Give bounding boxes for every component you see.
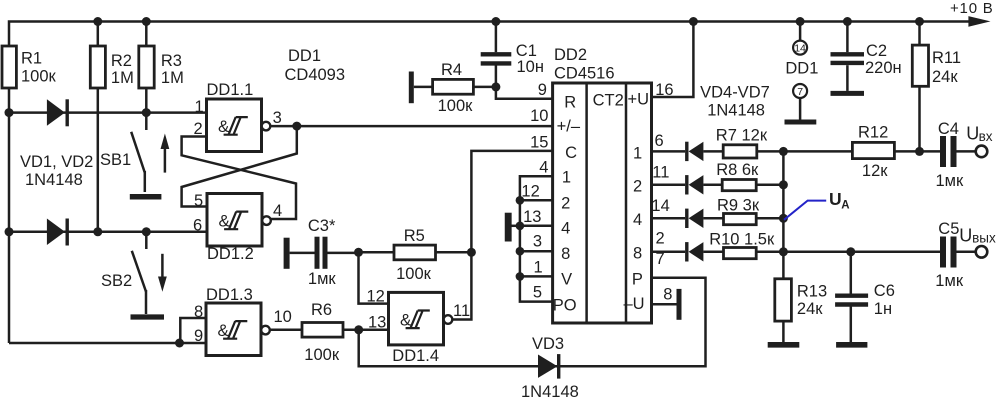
svg-text:1M: 1M	[161, 69, 184, 87]
node rail C1	[491, 17, 500, 26]
svg-text:12: 12	[521, 182, 539, 200]
node SB1 top	[142, 108, 151, 117]
diode VD2	[47, 219, 65, 246]
diode VD5	[651, 175, 722, 194]
op-amp DD1.2	[207, 194, 271, 247]
wire DD2 gnd bus	[510, 176, 553, 301]
wire row 1	[9, 111, 207, 114]
wire pin8 gnd	[651, 303, 677, 306]
svg-text:12к: 12к	[862, 162, 888, 180]
IC DD2 body	[553, 83, 652, 323]
svg-text:13: 13	[523, 208, 541, 226]
svg-text:C: C	[565, 144, 577, 162]
svg-text:VD3: VD3	[532, 335, 564, 353]
svg-text:5: 5	[533, 284, 542, 302]
node bus row11	[779, 180, 788, 189]
wire left bottom to pin9	[9, 342, 206, 345]
svg-text:10: 10	[274, 308, 292, 326]
node DD1.1 out	[292, 122, 301, 131]
Uvx label	[966, 123, 992, 144]
svg-text:13: 13	[368, 314, 386, 332]
resistor R12	[852, 124, 940, 180]
svg-text:R1: R1	[21, 50, 42, 68]
ground DD2 left	[505, 213, 512, 242]
svg-text:вх: вх	[979, 129, 993, 144]
node left row1	[5, 108, 14, 117]
svg-text:DD1: DD1	[288, 47, 321, 65]
svg-text:вых: вых	[972, 231, 996, 246]
ground DD1	[785, 120, 817, 125]
node rail R3	[142, 17, 151, 26]
wire pin16 riser	[651, 22, 693, 98]
capacitor C6	[835, 252, 895, 342]
svg-text:C6: C6	[874, 282, 895, 300]
svg-text:10н: 10н	[517, 58, 544, 76]
svg-text:100к: 100к	[438, 97, 474, 115]
svg-text:8: 8	[561, 245, 570, 263]
node R5 right	[467, 248, 476, 257]
+10V arrow	[968, 16, 990, 27]
node bus row14	[779, 214, 788, 223]
svg-text:DD2: DD2	[554, 46, 587, 64]
wire cross-coupling pin2 to out4	[182, 137, 296, 220]
resistor R2	[97, 22, 100, 232]
svg-text:1мк: 1мк	[935, 272, 964, 290]
svg-text:8: 8	[663, 286, 672, 304]
node C3-R5	[354, 248, 363, 257]
svg-text:R6: R6	[311, 301, 332, 319]
svg-text:CT2: CT2	[593, 92, 624, 110]
svg-text:1M: 1M	[111, 69, 134, 87]
diode VD1	[47, 99, 65, 126]
svg-text:R9 3к: R9 3к	[717, 196, 760, 214]
node SB2 top	[142, 227, 151, 236]
resistor R5	[359, 227, 472, 283]
svg-text:R4: R4	[441, 61, 462, 79]
svg-text:100к: 100к	[304, 346, 340, 364]
svg-text:15: 15	[530, 133, 548, 151]
svg-text:1мк: 1мк	[308, 270, 337, 288]
capacitor C2	[831, 22, 902, 91]
svg-text:U: U	[966, 123, 979, 143]
svg-text:R3: R3	[161, 52, 182, 70]
svg-text:1N4148: 1N4148	[25, 171, 83, 189]
resistor R1	[2, 46, 16, 88]
wire bottom rail	[359, 278, 706, 366]
svg-text:–U: –U	[624, 295, 645, 313]
svg-text:4: 4	[633, 211, 642, 229]
wire cross-coupling out3 to pin5	[182, 126, 297, 206]
wire top power rail	[9, 22, 970, 344]
svg-text:220н: 220н	[865, 59, 902, 77]
svg-text:11: 11	[453, 302, 470, 320]
wire row 2	[9, 231, 207, 234]
resistor R7	[716, 127, 853, 158]
svg-text:C5: C5	[938, 220, 959, 238]
svg-text:24к: 24к	[797, 300, 823, 318]
svg-text:DD1.1: DD1.1	[207, 81, 254, 99]
svg-text:R: R	[564, 94, 576, 112]
ground R4	[409, 72, 414, 104]
ground C6	[836, 342, 867, 348]
node bus row6	[779, 147, 788, 156]
svg-text:A: A	[841, 200, 849, 212]
node rail C2	[843, 17, 852, 26]
svg-text:12: 12	[367, 288, 385, 306]
resistor R11	[912, 22, 961, 152]
svg-text:DD1.4: DD1.4	[392, 347, 439, 365]
svg-text:1: 1	[633, 144, 642, 162]
svg-text:2: 2	[656, 230, 665, 248]
svg-text:1мк: 1мк	[936, 172, 965, 190]
svg-text:R10 1.5к: R10 1.5к	[709, 230, 775, 248]
svg-text:VD4-VD7: VD4-VD7	[700, 84, 770, 102]
node rail R2	[93, 17, 102, 26]
svg-text:R7 12к: R7 12к	[716, 127, 768, 145]
node rail pin16	[689, 17, 698, 26]
svg-text:24к: 24к	[932, 68, 958, 86]
node C1-R4	[491, 82, 500, 91]
svg-text:14: 14	[794, 42, 806, 54]
svg-text:U: U	[959, 225, 972, 245]
svg-text:R2: R2	[111, 52, 132, 70]
svg-text:+U: +U	[628, 91, 650, 109]
capacitor C4	[936, 120, 976, 190]
svg-text:3: 3	[273, 109, 282, 127]
resistor R9	[717, 196, 783, 224]
capacitor C5	[935, 220, 975, 290]
SB2 arrow down	[158, 254, 167, 292]
svg-text:CD4516: CD4516	[554, 65, 615, 83]
node left row2	[5, 227, 14, 236]
svg-text:1N4148: 1N4148	[707, 101, 765, 119]
svg-text:100к: 100к	[21, 67, 57, 85]
svg-text:1: 1	[195, 98, 204, 116]
capacitor C3	[287, 217, 359, 288]
svg-text:C3*: C3*	[308, 217, 336, 235]
svg-text:+/–: +/–	[557, 117, 581, 135]
svg-text:R5: R5	[404, 227, 425, 245]
op-amp DD1.1	[207, 99, 271, 152]
svg-text:2: 2	[561, 194, 570, 212]
svg-text:4: 4	[561, 219, 570, 237]
svg-text:R13: R13	[797, 282, 827, 300]
resistor R10	[709, 230, 940, 258]
node rail DD1	[796, 17, 805, 26]
wire summing bus	[782, 151, 785, 278]
DD1 power pin7	[793, 84, 807, 120]
svg-text:PO: PO	[553, 297, 577, 315]
svg-text:4: 4	[539, 159, 548, 177]
SB1 arrow up	[161, 134, 170, 173]
wire DD1.4 pin12 riser	[359, 252, 389, 303]
svg-text:8: 8	[633, 244, 642, 262]
diode VD6	[651, 209, 724, 228]
node C6 tap	[846, 247, 855, 256]
diode VD4	[651, 142, 723, 161]
svg-text:1N4148: 1N4148	[521, 383, 579, 397]
button SB2	[101, 232, 164, 317]
svg-text:+10 В: +10 В	[950, 0, 994, 17]
ground C2	[831, 91, 865, 96]
svg-text:3: 3	[533, 232, 542, 250]
wire DD1.1 out	[270, 125, 552, 128]
wire C1 to pin9	[496, 87, 553, 99]
node Uvx terminal	[976, 146, 988, 158]
node bus row2	[779, 247, 788, 256]
svg-text:9: 9	[538, 81, 547, 99]
node pin9	[175, 339, 184, 348]
svg-text:6: 6	[655, 132, 664, 150]
svg-text:4: 4	[273, 202, 282, 220]
ground DD2 right	[677, 289, 682, 320]
DD1 power pin14	[793, 22, 807, 55]
svg-text:P: P	[632, 270, 643, 288]
wire DD1.4 out	[452, 151, 552, 320]
svg-text:1н: 1н	[874, 300, 892, 318]
svg-text:1: 1	[562, 169, 571, 187]
node R12-C4	[915, 147, 924, 156]
svg-text:VD1, VD2: VD1, VD2	[20, 153, 93, 171]
svg-text:DD1: DD1	[785, 60, 818, 78]
svg-text:SB2: SB2	[101, 272, 132, 290]
svg-text:DD1.2: DD1.2	[207, 245, 254, 263]
svg-text:U: U	[829, 189, 842, 209]
op-amp DD1.3	[206, 303, 270, 356]
node R6 right	[354, 325, 363, 334]
svg-text:C2: C2	[866, 42, 887, 60]
node rail R11	[915, 17, 924, 26]
capacitor C1	[481, 22, 544, 87]
resistor R8	[716, 161, 783, 191]
op-amp DD1.4	[389, 292, 453, 345]
svg-text:SB1: SB1	[100, 151, 131, 169]
diode VD7	[651, 242, 724, 261]
Uvyx label	[959, 225, 996, 245]
svg-text:11: 11	[652, 164, 669, 182]
svg-text:C4: C4	[938, 120, 959, 138]
svg-text:R8 6к: R8 6к	[716, 161, 759, 179]
wire DD1.3 pin8 loop	[180, 318, 206, 343]
svg-text:5: 5	[194, 192, 203, 210]
svg-text:6: 6	[193, 217, 202, 235]
svg-text:14: 14	[651, 197, 669, 215]
node R2 row2	[93, 227, 102, 236]
svg-text:R12: R12	[858, 124, 888, 142]
svg-text:100к: 100к	[396, 265, 432, 283]
svg-text:V: V	[561, 270, 572, 288]
resistor R3	[145, 22, 148, 113]
resistor R13	[775, 279, 827, 342]
svg-text:DD1.3: DD1.3	[206, 286, 253, 304]
svg-text:1: 1	[534, 259, 543, 277]
svg-text:7: 7	[797, 86, 803, 98]
svg-text:10: 10	[530, 107, 548, 125]
svg-text:R11: R11	[932, 49, 961, 67]
svg-text:2: 2	[633, 178, 642, 196]
node UA label	[784, 189, 850, 220]
node Uvyx terminal	[976, 246, 988, 258]
resistor R6	[270, 301, 389, 364]
button SB1	[100, 113, 161, 197]
svg-text:CD4093: CD4093	[285, 66, 346, 84]
resistor R4	[414, 61, 496, 115]
ground R13	[768, 342, 800, 348]
diode VD3	[521, 335, 579, 397]
